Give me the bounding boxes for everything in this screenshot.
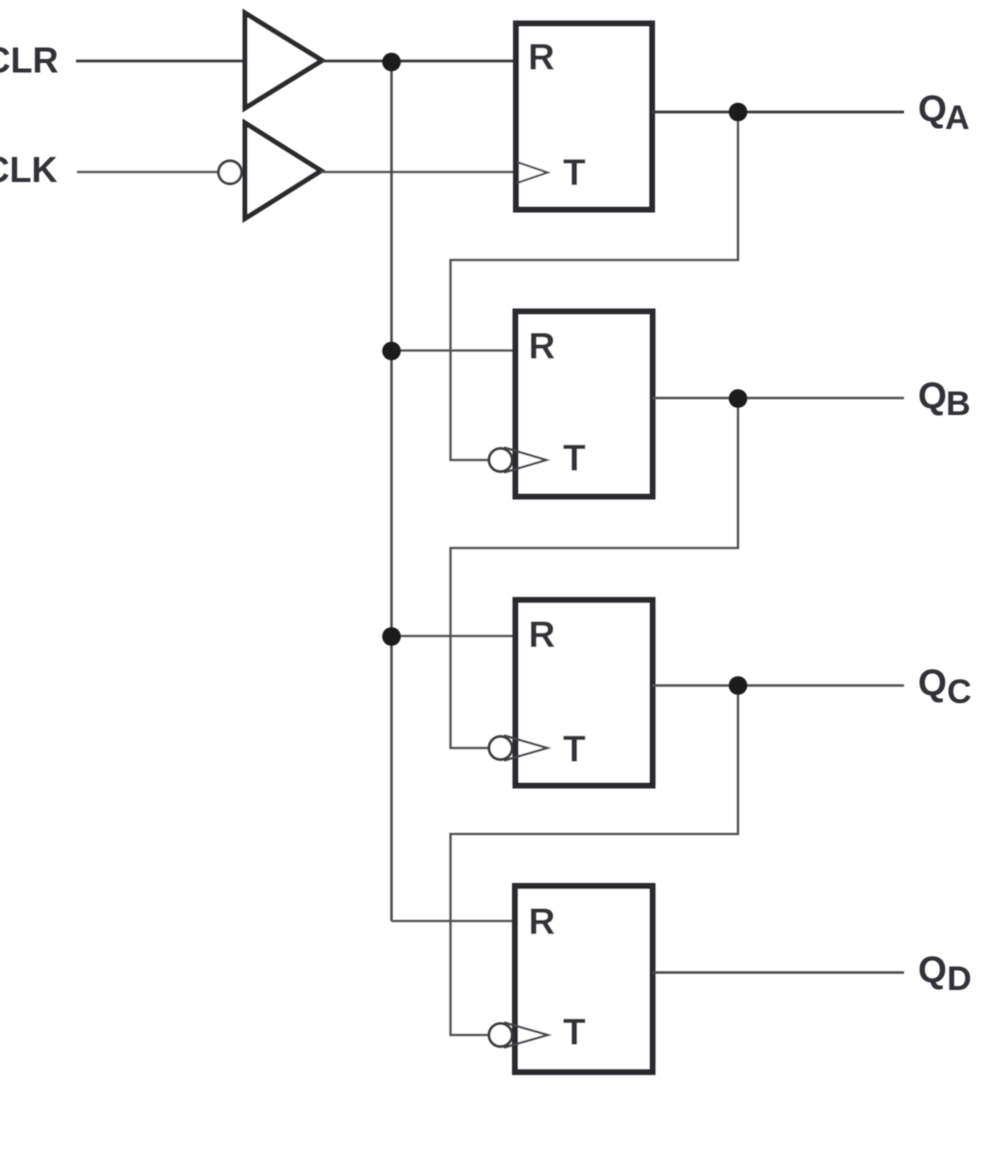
pin label T of FF2 [563, 438, 586, 479]
svg-text:T: T [563, 152, 586, 193]
wire QC feedback to FF4 T [451, 686, 739, 1036]
inverter bubble FF2 T [489, 449, 512, 472]
pin label T of FF4 [563, 1012, 586, 1053]
clock wedge FF1 T [517, 162, 548, 183]
label QB [918, 375, 971, 423]
label QD [918, 949, 972, 998]
pin label R of FF2 [529, 326, 556, 367]
svg-text:R: R [529, 326, 556, 367]
wire CLR input [76, 60, 243, 63]
pin label T of FF1 [563, 152, 586, 193]
flip-flop FF3 box [516, 600, 653, 786]
inverter bubble FF4 T [489, 1024, 512, 1047]
wire CLR to FF2 R [392, 349, 517, 351]
svg-text:T: T [563, 438, 586, 479]
svg-text:Q: Q [918, 662, 947, 703]
svg-text:T: T [563, 1012, 586, 1053]
svg-text:Q: Q [918, 88, 947, 129]
svg-text:Q: Q [918, 949, 947, 990]
wire U2 output to FF1 T [321, 171, 517, 173]
svg-text:C: C [947, 673, 972, 711]
flip-flop FF4 box [515, 886, 653, 1072]
wire CLR to FF4 R [392, 920, 517, 922]
pin label T of FF3 [563, 729, 586, 770]
clock wedge FF3 T [504, 736, 548, 761]
svg-text:R: R [529, 614, 556, 655]
node QB junction [729, 389, 748, 408]
buffer U1 (CLR) [245, 13, 322, 108]
label QC [918, 662, 972, 711]
label CLK [0, 149, 58, 190]
pin label R of FF1 [528, 37, 555, 78]
node QA junction [729, 103, 748, 122]
svg-text:CLK: CLK [0, 149, 58, 190]
label CLR [0, 40, 59, 81]
wire QB feedback to FF3 T [451, 398, 739, 748]
node CLR junction 2 [382, 342, 401, 361]
inverter U2 (CLK) [245, 123, 321, 219]
flip-flop FF1 box [516, 24, 652, 210]
svg-text:CLR: CLR [0, 40, 59, 81]
wire FF1 output [652, 111, 904, 114]
inverter bubble at U2 input [219, 161, 242, 184]
clock wedge FF4 T [504, 1023, 548, 1048]
wire CLR vertical bus [390, 62, 393, 921]
svg-text:Q: Q [918, 375, 947, 416]
svg-text:A: A [945, 99, 970, 137]
inverter bubble FF3 T [489, 737, 512, 760]
pin label R of FF4 [529, 901, 556, 942]
svg-text:T: T [563, 729, 586, 770]
label QA [918, 88, 970, 137]
clock wedge FF2 T [504, 448, 547, 473]
svg-text:B: B [946, 385, 971, 423]
node QC junction [729, 676, 748, 695]
wire FF2 output [653, 397, 905, 399]
wire CLK input [77, 171, 219, 173]
svg-text:R: R [529, 901, 556, 942]
node CLR junction 1 [382, 53, 401, 72]
wire CLR to FF3 R [392, 635, 517, 637]
pin label R of FF3 [529, 614, 556, 655]
node CLR junction 3 [382, 627, 401, 646]
wire FF4 output [653, 971, 905, 974]
svg-text:R: R [528, 37, 555, 78]
flip-flop FF2 box [516, 312, 653, 497]
wire QA feedback to FF2 T [451, 112, 739, 460]
wire U1 output to FF1 R [322, 60, 516, 63]
svg-text:D: D [947, 960, 972, 998]
wire FF3 output [653, 684, 905, 686]
